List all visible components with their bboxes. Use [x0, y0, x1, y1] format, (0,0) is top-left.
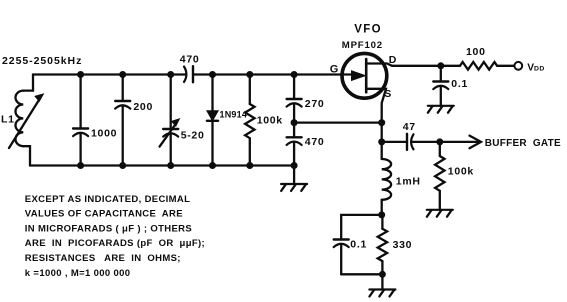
svg-text:470: 470: [305, 136, 325, 148]
node bottom rail 6: [291, 162, 298, 169]
capacitor 470 series (top rail): [184, 66, 193, 82]
svg-text:0.1: 0.1: [451, 78, 468, 90]
svg-text:L1: L1: [1, 113, 15, 125]
ground (drain bypass): [428, 106, 454, 113]
inductor 1mH: [382, 142, 391, 215]
svg-text:100: 100: [466, 46, 486, 58]
svg-text:RESISTANCES ARE IN OHMS;: RESISTANCES ARE IN OHMS;: [25, 253, 181, 264]
svg-text:270: 270: [305, 98, 325, 110]
wire source column: [381, 123, 383, 142]
svg-text:100k: 100k: [257, 115, 283, 127]
svg-text:1N914: 1N914: [220, 110, 248, 120]
capacitor C trimmer 5-20: [160, 75, 180, 166]
node 330 bottom: [379, 271, 386, 278]
wire bottom rail: [30, 164, 294, 166]
resistor 100k (buffer): [435, 142, 444, 210]
node 1mH bottom: [378, 211, 385, 218]
capacitor 1000: [73, 75, 88, 166]
node bottom rail 1: [77, 162, 84, 169]
ground (tank bottom): [281, 166, 307, 191]
svg-text:330: 330: [393, 239, 413, 251]
ground (buffer resistor): [427, 210, 453, 217]
resistor 330: [378, 215, 387, 274]
node bottom rail 2: [119, 162, 126, 169]
wire to coupling cap: [382, 141, 407, 143]
wire 0.1 branch top: [341, 215, 382, 240]
svg-text:BUFFER GATE: BUFFER GATE: [485, 138, 561, 149]
wire source feedback (divider tap to source): [294, 121, 382, 123]
svg-text:VFO: VFO: [354, 23, 382, 35]
wire to buffer arrow: [440, 141, 481, 143]
svg-text:1000: 1000: [91, 128, 117, 140]
node source output: [378, 138, 385, 145]
node top rail 4: [209, 71, 216, 78]
svg-text:k =1000 , M=1 000 000: k =1000 , M=1 000 000: [25, 268, 131, 279]
ground (source network): [369, 274, 395, 296]
capacitor 200: [115, 75, 130, 166]
node top rail 1: [77, 71, 84, 78]
node buffer: [436, 138, 443, 145]
svg-text:200: 200: [133, 101, 153, 113]
wire 0.1 branch bottom: [341, 273, 382, 275]
svg-text:IN MICROFARADS ( μF ) ; OTHERS: IN MICROFARADS ( μF ) ; OTHERS: [25, 223, 192, 234]
wire top rail left segment: [33, 73, 186, 75]
node top rail 3: [167, 71, 174, 78]
diode 1N914: [207, 75, 218, 166]
svg-text:ARE IN PICOFARADS (pF OR μ: ARE IN PICOFARADS (pF OR μμF);: [25, 238, 205, 249]
capacitor 470 (lower of divider): [287, 123, 302, 166]
svg-text:1mH: 1mH: [396, 176, 421, 188]
svg-text:47: 47: [403, 121, 416, 133]
svg-text:S: S: [384, 88, 391, 100]
node bottom rail 5: [246, 162, 253, 169]
node source tap: [378, 119, 385, 126]
resistor 100: [460, 62, 497, 70]
capacitor 47: [407, 134, 414, 150]
svg-text:0.1: 0.1: [350, 239, 367, 251]
capacitor 270: [287, 75, 302, 123]
node divider tap: [291, 119, 298, 126]
node top rail 6: [291, 71, 298, 78]
svg-text:470: 470: [180, 53, 200, 65]
transistor Q1 MPF102: [342, 53, 392, 122]
svg-text:G: G: [330, 63, 339, 75]
svg-text:D: D: [389, 54, 397, 66]
svg-text:EXCEPT AS INDICATED, DECIMAL: EXCEPT AS INDICATED, DECIMAL: [25, 194, 191, 205]
node top rail 2: [119, 71, 126, 78]
wire top rail right segment (to gate): [193, 73, 353, 75]
node bottom rail 3: [167, 162, 174, 169]
capacitor 0.1 (source bypass): [334, 240, 349, 275]
wire after coupling cap: [412, 141, 440, 143]
resistor 100k (tank): [245, 75, 254, 166]
capacitor 0.1 (drain bypass): [433, 66, 448, 106]
svg-text:100k: 100k: [448, 165, 474, 177]
wire drain rail: [392, 65, 460, 67]
svg-text:MPF102: MPF102: [342, 40, 383, 51]
inductor L1: [9, 75, 43, 166]
arrow buffer gate: [470, 136, 482, 149]
terminal Vdd: [514, 62, 522, 70]
node drain bypass: [437, 62, 444, 69]
svg-text:2255-2505kHz: 2255-2505kHz: [2, 55, 82, 67]
svg-text:5-20: 5-20: [181, 129, 205, 141]
svg-text:VALUES OF CAPACITANCE ARE: VALUES OF CAPACITANCE ARE: [25, 209, 183, 220]
wire to Vdd: [497, 65, 514, 67]
node top rail 5: [246, 71, 253, 78]
node bottom rail 4: [209, 162, 216, 169]
